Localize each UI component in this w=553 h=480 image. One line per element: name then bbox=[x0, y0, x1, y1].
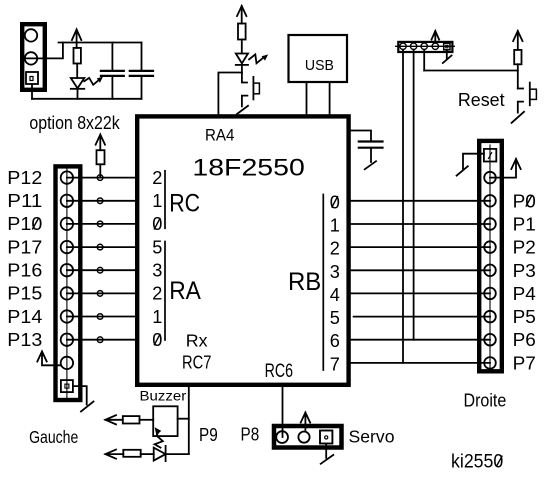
connector Gauche 10-pin bbox=[56, 166, 81, 400]
wire row P14 to chip bbox=[67, 316, 136, 318]
junction node on P10 row bbox=[97, 221, 103, 227]
slash of zero RA0 bbox=[154, 334, 160, 344]
wire ground bottom rail bbox=[32, 98, 142, 100]
junction node on P11 row bbox=[97, 198, 103, 204]
svg-text:P15: P15 bbox=[7, 284, 42, 304]
wire D3 to RC7 net bbox=[166, 453, 189, 455]
LED D3 bbox=[154, 428, 166, 461]
svg-text:RA4: RA4 bbox=[205, 126, 234, 144]
wire row P10 to chip bbox=[67, 223, 136, 225]
wire RC6 to servo pin1 bbox=[282, 387, 284, 437]
ground slash (C3) bbox=[365, 161, 376, 169]
svg-text:RC: RC bbox=[169, 190, 200, 218]
svg-text:P1: P1 bbox=[513, 215, 536, 235]
resistor R5 bbox=[123, 416, 140, 423]
wire USB leg 2 bbox=[329, 82, 331, 115]
svg-text:18F2550: 18F2550 bbox=[192, 155, 304, 182]
svg-text:6: 6 bbox=[330, 331, 340, 351]
svg-text:2: 2 bbox=[152, 284, 162, 304]
svg-text:P5: P5 bbox=[513, 307, 536, 327]
power arrow above R2 bbox=[96, 135, 105, 151]
junction node on P17 row bbox=[97, 244, 103, 250]
wire row RB5 to Droite P5 bbox=[354, 316, 490, 318]
IC U1 18F2550 body bbox=[137, 116, 348, 384]
wire R5 to buzzer bbox=[140, 419, 154, 421]
pin group bar RB bbox=[322, 195, 324, 371]
svg-text:P0: P0 bbox=[513, 191, 536, 211]
wire buzzer to RC7 net bbox=[178, 418, 189, 420]
buzzer BZ1 bbox=[153, 406, 177, 436]
wire row RB2 to Droite P2 bbox=[351, 246, 490, 248]
svg-text:2: 2 bbox=[330, 239, 340, 259]
wire row P11 to chip bbox=[67, 200, 136, 202]
slash of zero in P0 bbox=[526, 196, 532, 206]
wire D1 to ground rail bbox=[77, 89, 79, 99]
wire header pin3 down bbox=[423, 50, 425, 71]
svg-text:P14: P14 bbox=[7, 307, 42, 327]
wire row RB0 to Droite P0 bbox=[351, 200, 490, 202]
wire header pin1 to RB7 row bbox=[402, 50, 404, 363]
svg-text:P9: P9 bbox=[199, 425, 218, 445]
svg-text:P13: P13 bbox=[7, 330, 42, 350]
svg-text:ki2550: ki2550 bbox=[451, 452, 503, 473]
wire USB leg 1 bbox=[306, 82, 308, 115]
svg-text:Rx: Rx bbox=[186, 331, 208, 351]
svg-text:Servo: Servo bbox=[349, 427, 395, 447]
ground slash (servo) bbox=[321, 455, 334, 464]
USB connector bbox=[289, 35, 348, 82]
svg-text:RB: RB bbox=[288, 268, 321, 296]
power arrow at servo pin2 bbox=[301, 413, 310, 431]
wire to Reset bbox=[424, 70, 518, 72]
slash of zero in ki2550 bbox=[497, 456, 502, 466]
svg-text:1: 1 bbox=[152, 191, 162, 211]
svg-text:RC7: RC7 bbox=[182, 351, 211, 372]
arrow to P9 left (bottom) bbox=[105, 450, 123, 459]
ground slash (Droite) bbox=[457, 166, 468, 175]
svg-text:P17: P17 bbox=[7, 237, 42, 257]
svg-text:P7: P7 bbox=[513, 353, 536, 373]
svg-text:Gauche: Gauche bbox=[29, 427, 78, 447]
power arrow (supply) above R1 bbox=[72, 30, 81, 48]
wire row P13 to chip bbox=[67, 339, 136, 341]
slash of zero RC0 bbox=[154, 219, 160, 229]
junction node on P13 row bbox=[97, 337, 103, 343]
connector ICSP header 5-pin bbox=[396, 42, 455, 52]
svg-text:7: 7 bbox=[330, 354, 340, 374]
wire row P15 to chip bbox=[67, 292, 136, 294]
resistor R1 bbox=[74, 48, 81, 64]
wire row P16 to chip bbox=[67, 269, 136, 271]
connector J1 power 3-pin bbox=[22, 24, 45, 90]
ground at header pin5 bbox=[446, 50, 448, 59]
svg-text:P2: P2 bbox=[513, 238, 536, 258]
resistor R4 bbox=[514, 50, 521, 64]
svg-text:P10: P10 bbox=[7, 214, 42, 234]
capacitor C1 bbox=[101, 43, 124, 99]
svg-text:Reset: Reset bbox=[458, 90, 505, 110]
wire node to chip RA4 bbox=[218, 73, 242, 115]
junction node on P16 row bbox=[97, 267, 103, 273]
svg-text:3: 3 bbox=[330, 262, 340, 282]
svg-text:RA: RA bbox=[169, 277, 201, 305]
wire header pin2 to RB6 row bbox=[413, 50, 415, 340]
wire D2 to node RA4 bbox=[241, 65, 243, 73]
arrow to P9 left (top) bbox=[105, 415, 122, 424]
wire +V top rail bbox=[59, 42, 142, 44]
ground at servo pin3 bbox=[325, 444, 327, 458]
wire R3 to LED D2 bbox=[241, 40, 243, 54]
svg-text:5: 5 bbox=[152, 237, 162, 257]
svg-text:RC6: RC6 bbox=[265, 361, 293, 382]
svg-text:2: 2 bbox=[152, 168, 162, 188]
ground at Droite square pin bbox=[463, 154, 484, 169]
svg-text:P3: P3 bbox=[513, 261, 536, 281]
power arrow above R3 (RA4 LED) bbox=[237, 6, 246, 24]
wire row P12 to chip bbox=[67, 177, 136, 179]
power arrow above R4 (Reset) bbox=[513, 31, 522, 50]
connector Servo 3-pin bbox=[274, 426, 342, 448]
wire R2 to P12 row bbox=[99, 164, 101, 177]
wire RC7 net vertical bbox=[188, 387, 190, 454]
LED D2 bbox=[236, 54, 267, 65]
capacitor C2 bbox=[130, 43, 153, 99]
wire row RB1 to Droite P1 bbox=[351, 223, 490, 225]
slash of zero in P10 bbox=[33, 219, 39, 229]
svg-text:1: 1 bbox=[330, 216, 340, 236]
LED D1 bbox=[71, 77, 102, 88]
capacitor C3 on chip right bbox=[351, 131, 383, 163]
wire row P17 to chip bbox=[67, 246, 136, 248]
wire row RB6 to Droite P6 bbox=[351, 339, 490, 341]
resistor R3 bbox=[238, 24, 246, 40]
svg-text:P4: P4 bbox=[513, 284, 536, 304]
ground slash (Gauche) bbox=[81, 402, 94, 412]
wire row RB3 to Droite P3 bbox=[351, 269, 490, 271]
ground at Gauche pin10 bbox=[73, 386, 87, 404]
wire R1 to LED D1 bbox=[76, 64, 78, 79]
svg-text:1: 1 bbox=[152, 307, 162, 327]
junction node on P14 row bbox=[97, 314, 103, 320]
power arrow at header pin4 bbox=[432, 31, 440, 43]
wire from J1 pin3 to ground rail bbox=[31, 84, 33, 99]
wire R6 to D3 bbox=[141, 453, 154, 455]
svg-text:Buzzer: Buzzer bbox=[140, 388, 187, 403]
svg-text:Droite: Droite bbox=[464, 391, 507, 411]
svg-text:P16: P16 bbox=[7, 261, 42, 281]
pin group bar RA bbox=[164, 242, 166, 341]
wire R4 to pushbutton bbox=[517, 64, 519, 88]
svg-text:3: 3 bbox=[152, 261, 162, 281]
resistor R6 bbox=[123, 450, 140, 457]
svg-text:USB: USB bbox=[305, 58, 334, 74]
svg-text:5: 5 bbox=[330, 308, 340, 328]
svg-text:P8: P8 bbox=[241, 424, 260, 444]
connector Droite 10-pin bbox=[479, 141, 502, 371]
power arrow at Droite pin2 bbox=[490, 159, 521, 178]
pushbutton SW2 Reset bbox=[512, 83, 537, 123]
pushbutton SW1 on RA4 bbox=[237, 73, 259, 115]
svg-text:option 8x22k: option 8x22k bbox=[29, 112, 120, 133]
power arrow at Gauche pin9 bbox=[37, 351, 61, 365]
junction node on P15 row bbox=[97, 291, 103, 297]
ground slash (header) bbox=[443, 56, 452, 64]
svg-text:P6: P6 bbox=[513, 330, 536, 350]
pin group bar RC bbox=[164, 171, 166, 229]
svg-text:4: 4 bbox=[330, 285, 340, 305]
svg-text:P11: P11 bbox=[7, 191, 42, 211]
wire row RB4 to Droite P4 bbox=[351, 292, 490, 294]
slash of zero RB0 bbox=[332, 197, 338, 207]
resistor R2 pull-up 22k bbox=[97, 150, 105, 164]
svg-text:P12: P12 bbox=[7, 168, 42, 188]
junction node on P12 row bbox=[97, 175, 103, 181]
wire row RB7 to Droite P7 bbox=[351, 362, 490, 364]
wire from J1 pin2 to +V rail bbox=[25, 43, 63, 59]
